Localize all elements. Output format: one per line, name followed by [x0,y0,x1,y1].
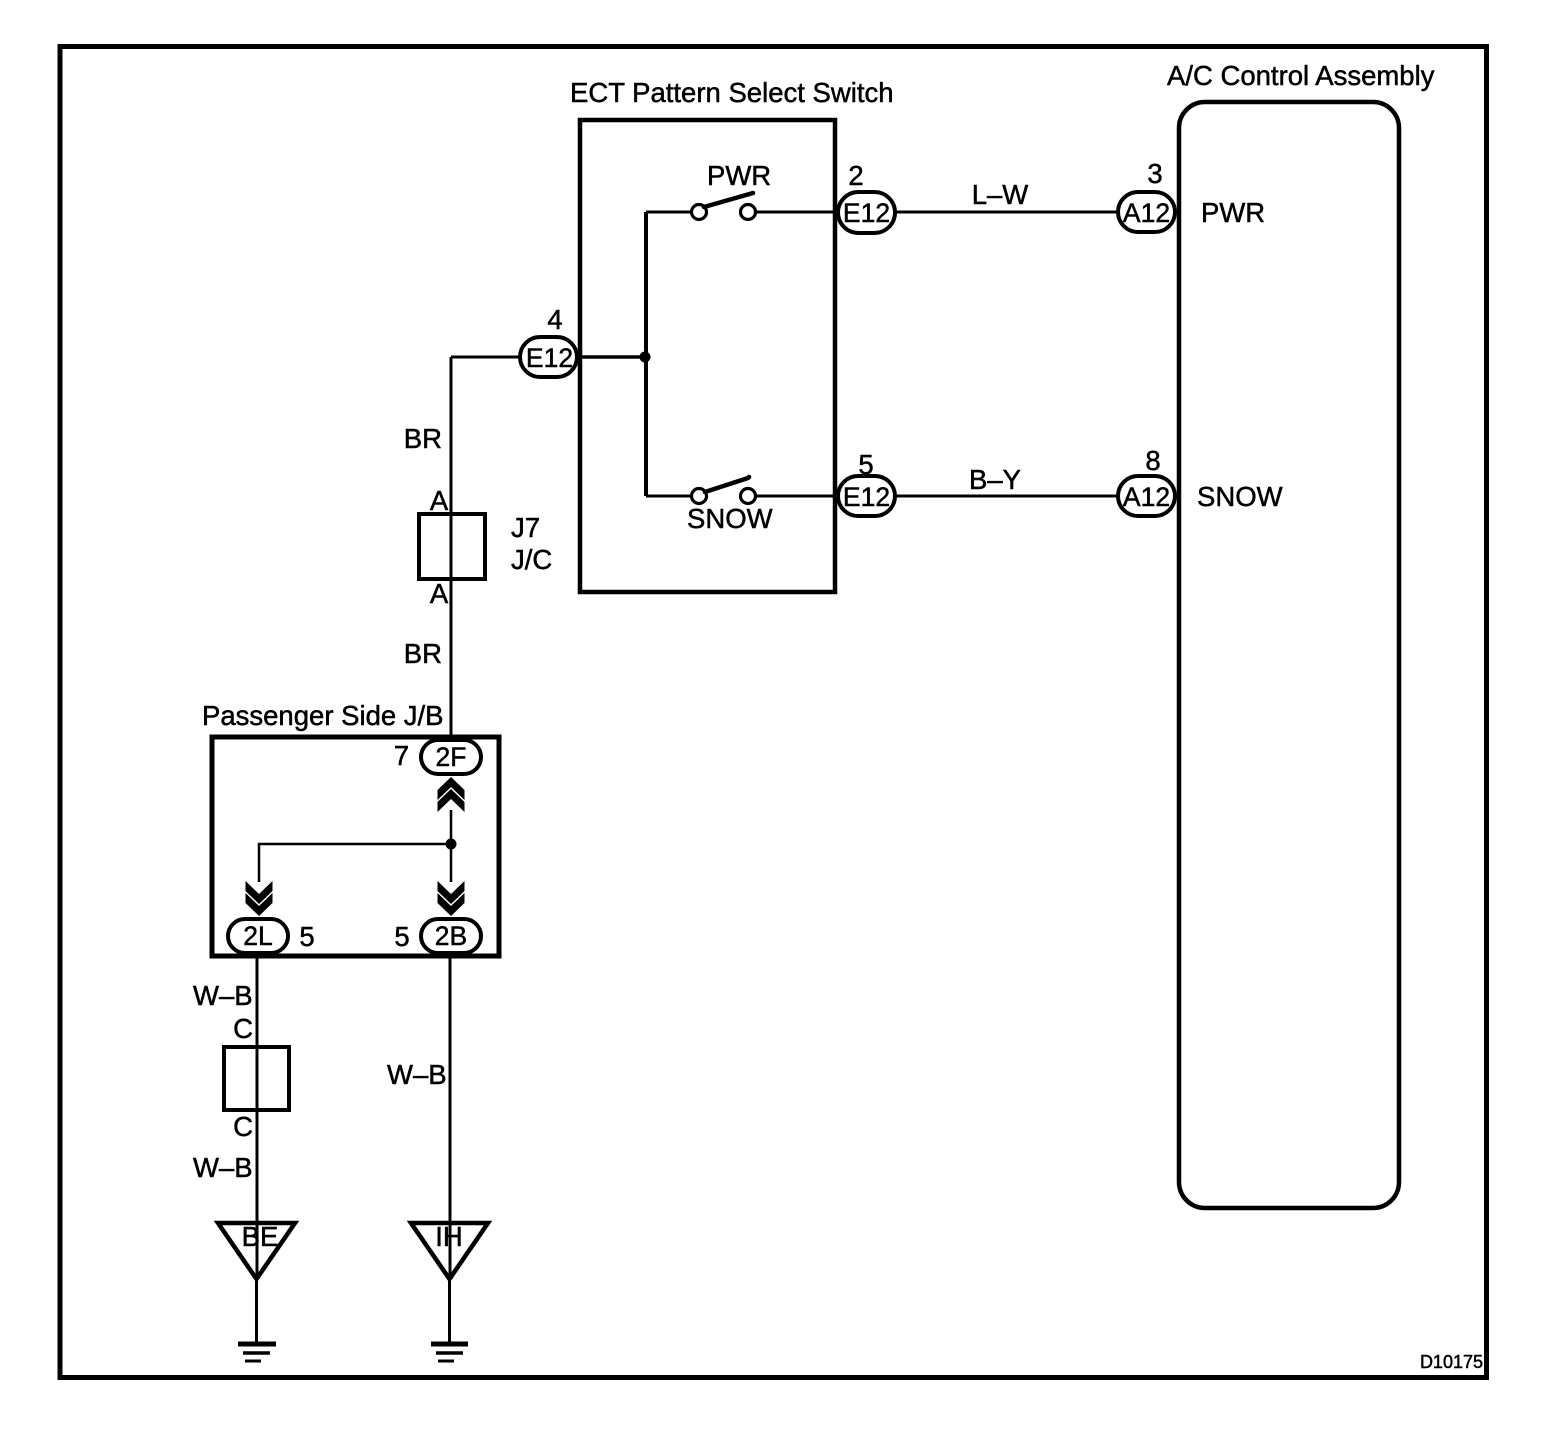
switch SNOW left contact [692,489,707,504]
svg-text:5: 5 [299,921,314,952]
wire IH triangle to ground [448,1279,451,1344]
wire: E12 pin4 left lead [451,356,520,359]
svg-text:A/C Control Assembly: A/C Control Assembly [1167,60,1435,91]
Passenger Side J/B box [212,737,499,956]
wire: E12 pin4 to junction inside box [577,355,648,359]
wire BE triangle to ground [255,1279,258,1344]
svg-text:SNOW: SNOW [687,503,773,534]
switch SNOW blade [705,478,748,492]
switch PWR right contact [741,205,756,220]
wire B-Y from E12 pin5 to A12 pin8 [895,495,1118,498]
arrow up into 2F [438,789,465,812]
svg-text:ECT Pattern Select Switch: ECT Pattern Select Switch [570,77,894,108]
ground triangle BE [218,1223,295,1279]
connector E12 pin 4 oval [520,337,577,377]
svg-text:BR: BR [404,423,442,454]
ground symbol right [431,1342,468,1347]
wire BR vertical from E12 pin4 down through J7 to J/B [450,357,453,740]
connector 2L oval [228,919,288,953]
switch SNOW right contact [741,489,756,504]
svg-text:2L: 2L [243,921,272,951]
svg-text:J7: J7 [511,512,540,543]
svg-text:SNOW: SNOW [1197,481,1283,512]
wire: PWR right contact to connector E12 pin 2 [756,211,838,214]
svg-text:L–W: L–W [972,179,1029,210]
svg-text:2F: 2F [436,742,467,772]
svg-text:B–Y: B–Y [969,464,1021,495]
connector 2B oval [421,919,481,953]
ECT Pattern Select Switch box [580,120,835,592]
wire W-B from 2L down to BE ground triangle [256,953,259,1279]
svg-text:E12: E12 [526,343,573,373]
switch PWR blade [704,193,753,207]
svg-text:W–B: W–B [387,1059,447,1090]
svg-text:PWR: PWR [1201,197,1265,228]
connector 2F oval [421,740,481,774]
svg-text:5: 5 [394,921,409,952]
arrow down into 2B [438,881,465,904]
wire: SNOW row to left contact [646,495,692,498]
svg-text:8: 8 [1145,445,1160,476]
svg-text:BR: BR [404,638,442,669]
svg-text:BE: BE [242,1221,279,1252]
svg-text:A12: A12 [1123,482,1170,512]
wire W-B from 2B down to IH ground triangle [449,953,452,1279]
svg-text:IH: IH [435,1221,463,1252]
wire: internal vertical bus in switch box [644,212,648,496]
wire L-W from E12 pin2 to A12 pin3 [895,211,1118,214]
svg-text:D10175: D10175 [1420,1352,1483,1372]
svg-text:A: A [430,485,449,516]
junction node dot in J/B [446,839,457,850]
svg-text:J/C: J/C [511,544,552,575]
connector C box [224,1047,289,1110]
svg-text:E12: E12 [843,198,890,228]
svg-text:2: 2 [848,160,863,191]
connector A12 pin 3 oval [1118,192,1175,232]
svg-text:A: A [430,578,449,609]
svg-text:3: 3 [1147,158,1162,189]
svg-text:C: C [233,1013,253,1044]
svg-text:2B: 2B [435,921,467,951]
svg-text:A12: A12 [1123,198,1170,228]
wire: branch left inside J/B [259,844,451,882]
connector E12 pin 5 oval [838,476,895,516]
svg-text:C: C [233,1111,253,1142]
connector A12 pin 8 oval [1118,476,1175,516]
ground triangle IH [411,1223,488,1279]
connector E12 pin 2 oval [838,192,895,233]
svg-text:W–B: W–B [193,980,253,1011]
svg-text:W–B: W–B [193,1152,253,1183]
svg-text:Passenger Side J/B: Passenger Side J/B [202,700,444,731]
arrow down into 2L [246,881,273,904]
junction connector J7 J/C box [419,514,485,579]
switch PWR left contact [692,205,707,220]
svg-text:PWR: PWR [707,160,771,191]
svg-text:7: 7 [394,740,409,771]
svg-text:4: 4 [547,304,562,335]
wire: SNOW right contact to connector E12 pin 5 [756,495,838,498]
wire: PWR row to left switch contact [646,211,692,214]
wire from 2F arrow down to junction [450,810,453,882]
junction node dot [640,352,651,363]
ground symbol left [238,1342,276,1347]
A/C Control Assembly body [1179,102,1399,1208]
svg-text:E12: E12 [843,482,890,512]
